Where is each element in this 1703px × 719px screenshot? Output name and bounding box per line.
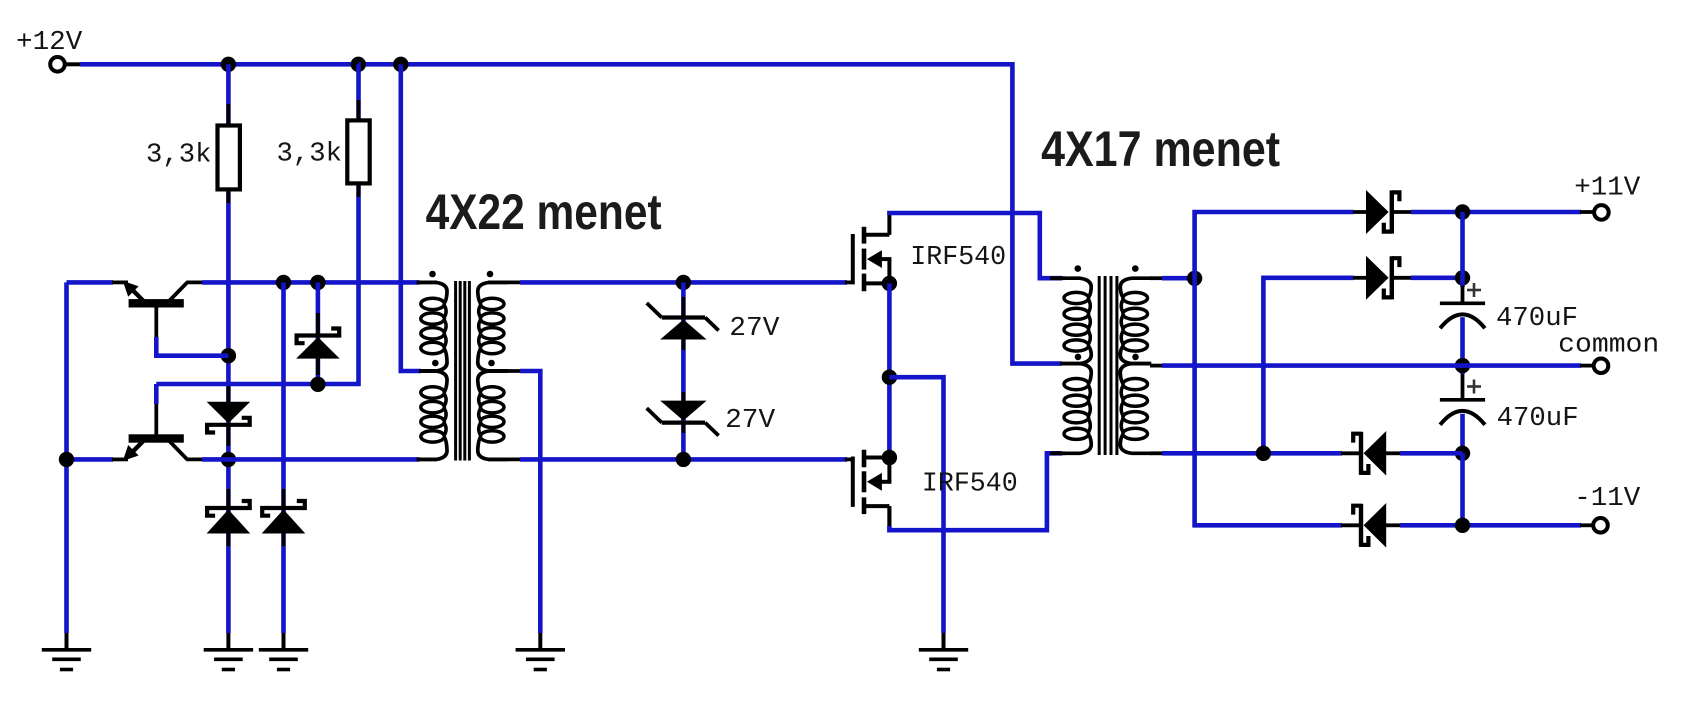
wire: C2 bottom to D5 line	[1460, 414, 1465, 454]
junction T2 sec bottom/D4 feed	[1256, 446, 1271, 461]
lead ZD2 top	[282, 489, 286, 509]
lead D6 cathode	[1341, 523, 1362, 527]
junction gate line Q4/ZD4	[676, 452, 691, 467]
wire: +11V rail vertical upper	[1460, 212, 1465, 287]
junction rail/T1 centre tap	[393, 57, 408, 72]
lead D4 anode	[1353, 276, 1367, 280]
wire: Q3 drain to T2 primary top	[889, 213, 1065, 278]
wire: C1 bottom to common	[1460, 317, 1465, 374]
resistor R2	[347, 120, 369, 183]
wire: Q2 base	[154, 384, 159, 404]
wire: D3/D6 feed vertical	[1195, 212, 1354, 525]
T2 core	[1099, 276, 1117, 455]
mosfet Q3 IRF540	[853, 215, 892, 292]
junction rail/R1	[221, 57, 236, 72]
diode D5	[1353, 431, 1386, 476]
wire: -11V rail vertical	[1460, 453, 1465, 525]
Q4 label IRF540	[922, 470, 1018, 500]
R2 value 3,3k	[277, 140, 343, 170]
junction Q4 drain/body	[882, 450, 897, 465]
lead R1 bottom	[226, 189, 230, 203]
T2 primary top winding	[1060, 278, 1091, 363]
wire: T1 secondary top to gate Q3	[488, 280, 847, 284]
wire: Q2 collector to T1 primary bottom	[202, 457, 437, 462]
T1 core	[456, 281, 470, 461]
junction C2/D5	[1455, 446, 1470, 461]
C2 value 470uF	[1497, 404, 1579, 434]
wire: Q1 emitter	[67, 280, 129, 285]
junction D4/C1	[1455, 270, 1470, 285]
T1 secondary top winding	[478, 282, 508, 371]
svg-text:470uF: 470uF	[1497, 404, 1579, 434]
wire: D2 vertical	[316, 282, 321, 384]
lead D2 bottom	[316, 359, 320, 375]
svg-text:3,3k: 3,3k	[277, 140, 343, 170]
common terminal	[1594, 359, 1609, 374]
wire: T1 secondary mid to ground	[488, 371, 540, 633]
lead R2 bottom	[357, 183, 361, 197]
T2 label 4X17 menet	[1041, 121, 1280, 177]
junction ZD2 top	[276, 275, 291, 290]
wire: D6 to -11V terminal	[1400, 523, 1595, 528]
junction D2 top	[310, 275, 325, 290]
zener diode D1	[207, 402, 251, 433]
-11V terminal	[1593, 518, 1608, 533]
R1 value 3,3k	[146, 141, 212, 171]
lead D3 anode	[1353, 210, 1367, 214]
junction D2/Q2 base line	[310, 377, 325, 392]
lead D1 top	[226, 386, 230, 403]
wire: ZD2 vertical	[281, 282, 286, 633]
T1 phase dot secondary top	[487, 271, 494, 278]
ZD3 value 27V	[729, 314, 780, 344]
wire: Q4 source to T2 primary bottom	[889, 453, 1065, 530]
lead R1 top	[226, 104, 230, 126]
wire: Q1 base	[156, 337, 228, 356]
lead Q4 gate	[845, 457, 853, 461]
T2 phase dot secondary bottom	[1132, 354, 1139, 361]
T1 primary top winding	[417, 282, 447, 371]
lead D3 cathode	[1392, 210, 1412, 214]
T1 secondary bottom winding	[478, 371, 508, 459]
+11V terminal	[1594, 205, 1609, 220]
svg-text:+11V: +11V	[1574, 173, 1641, 203]
lead D5 anode	[1386, 451, 1401, 455]
svg-text:27V: 27V	[725, 406, 776, 436]
zener diode ZD4 27V	[647, 401, 719, 436]
wire: R2 to Q2 base	[156, 64, 358, 384]
wire: midpoint to ground	[889, 377, 943, 633]
wire: D3 to +11V	[1411, 210, 1595, 215]
+12V input terminal	[50, 57, 65, 72]
T1 phase dot primary bottom	[432, 360, 439, 367]
wire: Q1 collector to T1 primary top	[202, 280, 437, 285]
junction gate line Q3/ZD3	[676, 275, 691, 290]
wire: T1 secondary bottom to gate Q4	[488, 457, 847, 461]
lead Q3 gate	[845, 280, 853, 284]
C1 value 470uF	[1496, 304, 1578, 334]
T2 secondary bottom winding	[1120, 364, 1151, 454]
junction Q3 source/body	[882, 276, 897, 291]
junction rail/R2	[351, 57, 366, 72]
wire: Q3 source to Q4 drain	[887, 283, 892, 457]
svg-text:27V: 27V	[729, 314, 780, 344]
ground under T1	[516, 633, 565, 670]
T2 secondary top winding	[1120, 278, 1151, 363]
svg-text:3,3k: 3,3k	[146, 141, 212, 171]
common label	[1558, 331, 1659, 361]
T2 phase dot secondary top	[1132, 265, 1139, 272]
lead ZD3-ZD4 mid bottom	[682, 392, 686, 402]
wire: T2 secondary top to D3 feed	[1150, 276, 1195, 280]
zener diode D2	[296, 329, 340, 359]
lead ZD3-ZD4 mid top	[682, 339, 686, 351]
wire: +12V rail to T2 centre tap	[66, 64, 1062, 363]
resistor R1	[218, 126, 240, 190]
diode D6	[1353, 503, 1386, 548]
lead ZD1 bottom	[226, 533, 230, 546]
lead ZD1 top	[226, 489, 230, 509]
wire: R1/D1/ZD1 vertical	[226, 64, 231, 633]
-11V label	[1574, 484, 1641, 514]
junction totem midpoint	[882, 370, 897, 385]
svg-text:4X17 menet: 4X17 menet	[1041, 121, 1280, 177]
svg-text:IRF540: IRF540	[922, 470, 1018, 500]
zener diode ZD2	[262, 501, 306, 534]
diode D4	[1366, 256, 1399, 300]
lead D4 cathode	[1392, 276, 1412, 280]
lead D5 cathode	[1341, 451, 1362, 455]
T2 primary bottom winding	[1060, 364, 1091, 454]
junction D3/+11V rail	[1455, 204, 1470, 219]
Q3 label IRF540	[910, 243, 1006, 273]
+12V label	[16, 28, 83, 58]
T2 phase dot primary top	[1075, 265, 1082, 272]
junction C1/common	[1455, 358, 1470, 373]
svg-text:+12V: +12V	[16, 28, 83, 58]
junction D6/-11V	[1455, 518, 1470, 533]
svg-text:-11V: -11V	[1574, 484, 1641, 514]
zener diode ZD3 27V	[647, 303, 719, 340]
T1 phase dot primary top	[429, 271, 436, 278]
junction D1/Q2 collector line	[221, 452, 236, 467]
lead ZD2 bottom	[282, 533, 286, 546]
wire: D4 to C1	[1411, 275, 1463, 280]
T1 centre tap wire	[401, 64, 437, 371]
ground left rail	[42, 633, 91, 670]
svg-text:IRF540: IRF540	[910, 243, 1006, 273]
lead D2 top	[316, 313, 320, 336]
+11V label	[1574, 173, 1641, 203]
zener diode ZD1	[207, 501, 251, 534]
wire: Q2 emitter	[67, 457, 129, 462]
ground under ZD2	[259, 633, 308, 670]
T1 label 4X22 menet	[426, 184, 662, 240]
lead C1 top	[1461, 286, 1465, 303]
ground under ZD1	[204, 633, 253, 670]
ZD4 value 27V	[725, 406, 776, 436]
junction left rail/Q2 emitter	[59, 452, 74, 467]
mosfet Q4 IRF540	[853, 450, 892, 527]
svg-text:4X22 menet: 4X22 menet	[426, 184, 662, 240]
lead ZD3 top	[682, 297, 686, 319]
capacitor C2 470uF	[1440, 380, 1485, 425]
transistor Q2	[123, 401, 204, 461]
junction T2 sec top	[1187, 271, 1202, 286]
T1 primary bottom winding	[417, 371, 447, 459]
svg-text:common: common	[1558, 331, 1659, 361]
wire: T2 secondary bottom to D5	[1150, 451, 1342, 455]
wire: D5 to -11V rail	[1400, 451, 1463, 456]
junction R1/Q1 base	[221, 348, 236, 363]
transistor Q1	[123, 281, 204, 341]
wire: T2 secondary mid to common terminal	[1150, 364, 1595, 368]
T1 phase dot secondary bottom	[488, 360, 495, 367]
lead R2 top	[357, 100, 361, 121]
wire: left emitter rail to ground	[64, 282, 69, 633]
wire: ZD3-ZD4 chain	[681, 282, 686, 459]
lead D1 bottom	[226, 425, 230, 446]
lead D6 anode	[1386, 523, 1401, 527]
lead ZD4 bottom	[682, 422, 686, 433]
diode D3	[1366, 190, 1399, 234]
svg-text:470uF: 470uF	[1496, 304, 1578, 334]
lead C2 top	[1461, 374, 1465, 399]
wire: D4 feed vertical	[1263, 278, 1353, 454]
T2 phase dot primary bottom	[1075, 354, 1082, 361]
capacitor C1 470uF	[1440, 283, 1485, 328]
ground under MOSFETs	[919, 633, 968, 670]
